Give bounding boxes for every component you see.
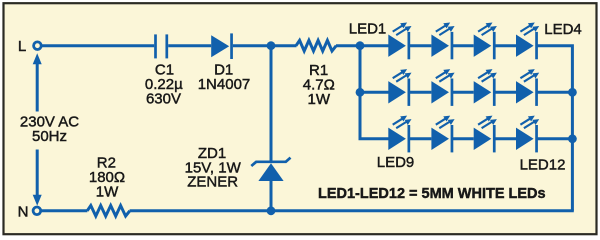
LED10 bbox=[431, 116, 454, 153]
svg-text:1W: 1W bbox=[308, 91, 331, 108]
resistor R1 bbox=[296, 40, 336, 51]
svg-text:1N4007: 1N4007 bbox=[198, 76, 251, 93]
svg-text:LED9: LED9 bbox=[377, 154, 415, 171]
svg-text:630V: 630V bbox=[146, 91, 181, 108]
label D1 value bbox=[198, 62, 251, 94]
LED5 bbox=[388, 69, 411, 106]
wire right bus bbox=[537, 46, 572, 211]
node row1 left bus bbox=[356, 41, 365, 50]
svg-text:50Hz: 50Hz bbox=[32, 128, 67, 145]
label R2 value bbox=[89, 155, 125, 201]
LED11 bbox=[474, 116, 497, 153]
LED7 bbox=[474, 69, 497, 106]
label C1 value bbox=[145, 62, 183, 108]
terminal L bbox=[18, 38, 41, 55]
LED8 bbox=[516, 69, 539, 106]
label R1 value bbox=[303, 62, 335, 108]
svg-text:ZENER: ZENER bbox=[187, 174, 238, 191]
wire bbox=[453, 137, 474, 140]
source span arrow (L to N) bbox=[33, 53, 42, 206]
wire bottom bbox=[130, 209, 574, 212]
label 230V AC 50Hz bbox=[20, 114, 79, 145]
LED6 bbox=[431, 69, 454, 106]
LED12 bbox=[516, 116, 539, 153]
diode D1 bbox=[211, 33, 233, 59]
zener ZD1 bbox=[251, 158, 290, 181]
wire bbox=[495, 91, 516, 94]
wire row2 left bbox=[360, 91, 389, 94]
terminal N bbox=[18, 203, 41, 220]
label ZD1 value bbox=[185, 145, 242, 191]
wire bbox=[410, 137, 432, 140]
node junction top bbox=[267, 41, 276, 50]
wire ZD1 to bottom bbox=[270, 181, 273, 211]
capacitor C1 bbox=[156, 34, 167, 58]
LED3 bbox=[474, 23, 497, 60]
svg-text:LED12: LED12 bbox=[520, 157, 566, 174]
wire bbox=[410, 91, 432, 94]
LED1 bbox=[388, 23, 411, 60]
wire row3 right bbox=[537, 137, 572, 140]
svg-text:L: L bbox=[18, 38, 26, 55]
wire bbox=[453, 44, 474, 47]
wire bbox=[410, 44, 432, 47]
svg-text:N: N bbox=[18, 203, 29, 220]
wire C1 to D1 bbox=[168, 44, 211, 47]
LED9 bbox=[388, 116, 411, 153]
wire N to R2 bbox=[41, 209, 87, 212]
svg-text:1W: 1W bbox=[96, 183, 119, 200]
wire bbox=[495, 137, 516, 140]
node junction bottom bbox=[267, 206, 276, 215]
resistor R2 bbox=[87, 206, 130, 217]
node row2 right bus bbox=[568, 88, 577, 97]
wire D1 to R1 bbox=[233, 44, 297, 47]
LED2 bbox=[431, 23, 454, 60]
node row2 left bus bbox=[356, 88, 365, 97]
wire junction to ZD1 bbox=[270, 46, 273, 161]
svg-text:LED4: LED4 bbox=[544, 21, 582, 38]
wire bbox=[453, 91, 474, 94]
wire L to C1 bbox=[42, 44, 155, 47]
LED4 bbox=[516, 23, 539, 60]
node row3 right bus bbox=[568, 134, 577, 143]
svg-text:LED1: LED1 bbox=[349, 21, 387, 38]
wire bbox=[495, 44, 516, 47]
wire R1 to LED row 1 bbox=[336, 44, 389, 47]
wire left bus vertical bbox=[360, 46, 389, 139]
svg-text:LED1-LED12 = 5MM WHITE LEDs: LED1-LED12 = 5MM WHITE LEDs bbox=[318, 186, 546, 202]
wire row2 right bbox=[537, 91, 572, 94]
